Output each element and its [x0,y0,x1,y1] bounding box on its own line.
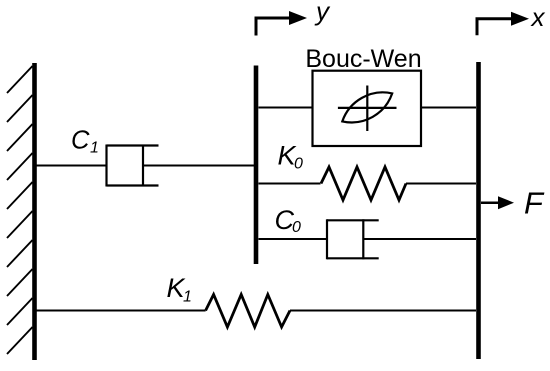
svg-text:F: F [524,186,545,221]
svg-text:x: x [530,2,546,32]
svg-text:Bouc-Wen: Bouc-Wen [305,45,421,73]
svg-text:C: C [71,127,90,155]
svg-text:0: 0 [294,156,303,173]
svg-text:y: y [314,0,331,26]
svg-text:0: 0 [292,219,301,236]
svg-text:1: 1 [183,289,192,306]
svg-text:1: 1 [90,140,99,157]
